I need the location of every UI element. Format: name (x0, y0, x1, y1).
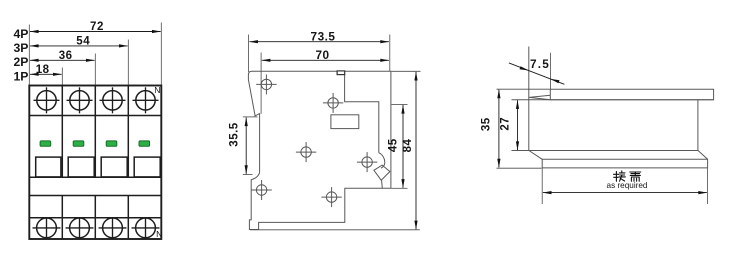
label window rectangle (331, 115, 359, 129)
pole separator 1 lower (61, 196, 63, 240)
body outline (side profile) (248, 71, 391, 229)
bottom terminal screw pole 4 (132, 217, 160, 238)
toggle window pole 1 (36, 157, 61, 177)
rivet circle C1 (256, 74, 276, 94)
svg-text:4P: 4P (13, 27, 28, 41)
dimension 72 (4P) (30, 21, 161, 33)
top terminal screw pole 2 (67, 87, 93, 113)
svg-text:18: 18 (36, 64, 50, 76)
green indicator pole 3 (106, 141, 117, 146)
rail foot left slant (529, 151, 542, 160)
svg-text:70: 70 (315, 48, 329, 62)
svg-text:73.5: 73.5 (311, 29, 336, 43)
horizontal line above middle band (29, 176, 161, 178)
pole separator 3 lower (127, 196, 129, 240)
top tab (337, 71, 345, 75)
toggle window pole 3 (101, 157, 127, 177)
toggle window pole 2 (68, 157, 94, 177)
pole separator 2 upper (94, 86, 96, 178)
top terminal screw pole 3 (100, 87, 126, 113)
dimension 27 (500, 100, 520, 150)
rivet circle C2 (323, 93, 343, 113)
dimension 84 (402, 72, 418, 230)
svg-text:7.5: 7.5 (530, 57, 550, 71)
horizontal line mid lower terminal block (29, 217, 161, 219)
extension line 36 (pole 2 separator up) (94, 54, 96, 86)
dimension 45 (388, 105, 405, 189)
extension line 35.5 bottom (243, 174, 253, 176)
extension line as-required right (707, 168, 709, 204)
toggle window pole 4 (134, 157, 160, 177)
rail foot right slant (698, 150, 708, 159)
rail body left edge (and 7.5 extension up) (528, 47, 530, 151)
svg-text:27: 27 (500, 117, 512, 131)
rail body right edge (697, 100, 699, 151)
green indicator pole 4 (139, 141, 150, 146)
svg-text:1P: 1P (13, 69, 28, 83)
svg-text:N: N (156, 229, 162, 239)
green indicator pole 2 (73, 141, 84, 146)
svg-text:35.5: 35.5 (229, 122, 241, 146)
rail recess step (345, 74, 379, 152)
extension line 70 left (notch up) (260, 53, 262, 114)
dimension 70 (261, 48, 389, 62)
extension line 45 top (392, 103, 408, 105)
bottom terminal screw pole 3 (99, 217, 127, 238)
horizontal line below middle band (29, 195, 161, 197)
extension line plate top left (497, 88, 550, 90)
bottom ground line (84 extension) (250, 229, 420, 231)
svg-text:as required: as required (607, 181, 648, 190)
dimension 7.5 slanted (509, 57, 565, 84)
svg-text:45: 45 (388, 138, 400, 152)
svg-text:72: 72 (90, 21, 104, 33)
svg-text:3P: 3P (13, 41, 28, 55)
extension line foot bottom left (497, 167, 542, 169)
rivet circle C3 (296, 142, 316, 162)
dimension 18 (1P) (30, 64, 62, 76)
extension line 84 top (392, 70, 421, 72)
green indicator pole 1 (40, 141, 51, 146)
extension line left edge up (73.5) (248, 35, 250, 73)
rivet circle C6 (357, 152, 377, 172)
svg-text:35: 35 (481, 117, 493, 131)
extension line 7.5 right vertical (549, 53, 551, 89)
extension line 72 (right edge up) (160, 23, 162, 86)
dimension 54 (3P) (30, 36, 128, 48)
pole separator 3 upper (127, 86, 129, 178)
rivet circle C5 (321, 187, 341, 207)
rail body bottom line (with left extension) (512, 150, 698, 152)
top terminal screw pole 1 (34, 87, 60, 113)
dimension 35 (481, 89, 501, 168)
extension line left edge up (28, 25, 30, 86)
dimension 36 (2P) (30, 50, 95, 62)
extension line 18 (pole 1 separator up) (61, 68, 63, 86)
extension line 54 (pole 3 separator up) (127, 40, 129, 86)
rail foot strip (542, 159, 707, 168)
rail plate bottom line (with left extension) (512, 99, 714, 101)
extension line 35.5 top (243, 116, 258, 118)
svg-text:36: 36 (59, 50, 73, 62)
extension line right edge up (shared 73.5/70) (389, 35, 391, 72)
extension line 45/84 bottom step (392, 187, 408, 189)
svg-text:N: N (154, 85, 160, 95)
clip diamond stem (381, 180, 384, 188)
clip hook curve (379, 153, 385, 169)
bottom terminal screw pole 2 (66, 217, 94, 238)
clip diamond (374, 165, 390, 180)
breaker body outline (29, 86, 161, 240)
rail top plate left wedge (529, 95, 550, 100)
horizontal line below top terminal row (29, 115, 161, 117)
top terminal screw pole 4 (133, 87, 159, 113)
dimension 73.5 (249, 29, 389, 43)
bottom terminal screw pole 1 (33, 217, 61, 238)
rail top plate (550, 89, 713, 100)
dimension as required (543, 171, 708, 194)
svg-text:2P: 2P (13, 55, 28, 69)
svg-text:54: 54 (76, 36, 90, 48)
rivet circle C4 (251, 180, 271, 200)
svg-text:84: 84 (402, 139, 414, 153)
pole separator 2 lower (94, 196, 96, 240)
dimension 35.5 (229, 117, 248, 174)
pole separator 1 upper (61, 86, 63, 178)
extension line as-required left (541, 168, 543, 204)
